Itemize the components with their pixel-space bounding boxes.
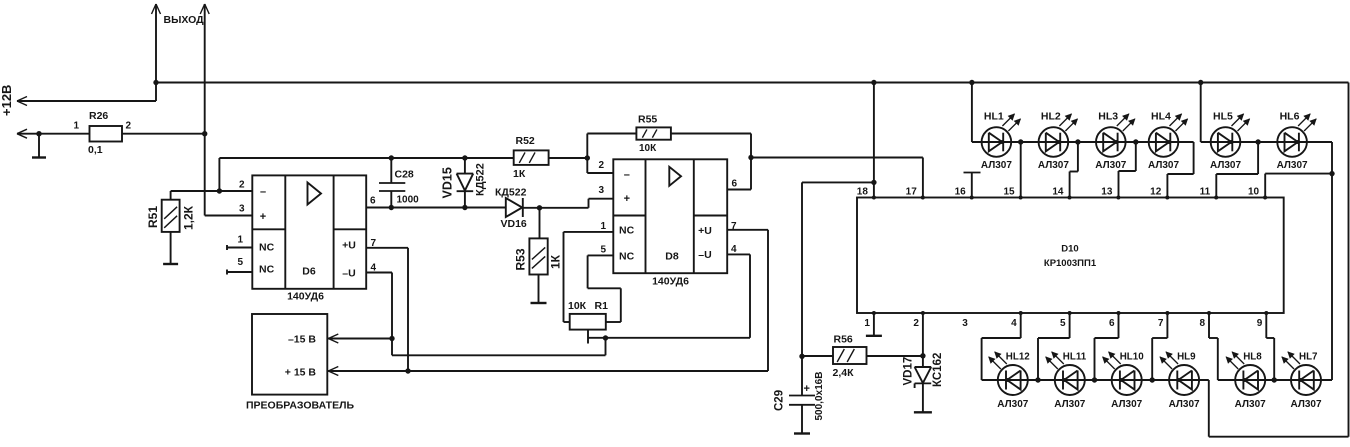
svg-text:HL5: HL5 (1213, 111, 1233, 123)
svg-text:HL11: HL11 (1063, 352, 1087, 363)
svg-text:АЛ307: АЛ307 (1111, 399, 1142, 410)
svg-text:HL10: HL10 (1120, 352, 1145, 363)
svg-text:HL4: HL4 (1151, 111, 1171, 123)
svg-text:R1: R1 (595, 300, 609, 312)
svg-text:VD15: VD15 (441, 167, 455, 198)
svg-text:КД522: КД522 (495, 187, 527, 199)
svg-text:R56: R56 (834, 334, 853, 346)
svg-text:140УД6: 140УД6 (652, 275, 689, 287)
svg-text:NC: NC (619, 251, 635, 263)
svg-text:1: 1 (237, 235, 243, 246)
svg-text:1: 1 (864, 318, 870, 329)
svg-text:6: 6 (732, 179, 738, 190)
svg-text:АЛ307: АЛ307 (981, 160, 1012, 171)
svg-text:HL7: HL7 (1299, 352, 1318, 363)
svg-text:–U: –U (342, 268, 355, 280)
svg-text:АЛ307: АЛ307 (1169, 399, 1200, 410)
svg-text:5: 5 (600, 245, 606, 256)
svg-text:11: 11 (1200, 187, 1211, 198)
svg-text:D6: D6 (302, 266, 316, 278)
svg-text:9: 9 (1257, 318, 1263, 329)
svg-text:2: 2 (598, 160, 604, 171)
svg-text:NC: NC (259, 242, 275, 254)
svg-text:10: 10 (1248, 187, 1260, 198)
svg-text:5: 5 (237, 257, 243, 268)
svg-text:HL2: HL2 (1041, 111, 1061, 123)
svg-text:D8: D8 (665, 250, 679, 262)
svg-text:16: 16 (955, 187, 967, 198)
svg-text:АЛ307: АЛ307 (1095, 160, 1126, 171)
svg-text:HL9: HL9 (1177, 352, 1196, 363)
svg-text:12: 12 (1150, 187, 1162, 198)
svg-text:R53: R53 (514, 248, 528, 270)
svg-text:VD17: VD17 (903, 357, 915, 386)
svg-text:140УД6: 140УД6 (287, 291, 324, 303)
svg-text:HL3: HL3 (1098, 111, 1118, 123)
svg-text:1К: 1К (513, 168, 526, 180)
svg-text:–U: –U (698, 249, 711, 261)
svg-text:HL1: HL1 (984, 111, 1004, 123)
svg-text:АЛ307: АЛ307 (1038, 160, 1069, 171)
svg-text:1: 1 (600, 221, 606, 232)
svg-text:4: 4 (1011, 318, 1017, 329)
svg-text:HL8: HL8 (1243, 352, 1262, 363)
svg-text:3: 3 (598, 185, 604, 196)
svg-text:1К: 1К (549, 254, 563, 269)
svg-text:1,2К: 1,2К (182, 205, 196, 230)
svg-text:2: 2 (239, 180, 245, 191)
svg-text:500,0х16В: 500,0х16В (814, 372, 825, 421)
svg-text:+U: +U (342, 240, 356, 252)
svg-text:1: 1 (73, 121, 79, 132)
svg-text:R51: R51 (146, 206, 160, 228)
svg-text:R26: R26 (89, 110, 108, 122)
svg-text:6: 6 (1109, 318, 1115, 329)
svg-text:14: 14 (1052, 187, 1064, 198)
svg-text:2,4К: 2,4К (833, 367, 855, 379)
svg-text:3: 3 (239, 204, 245, 215)
svg-text:NC: NC (259, 264, 275, 276)
svg-text:3: 3 (962, 318, 968, 329)
svg-text:VD16: VD16 (501, 218, 527, 230)
svg-text:ПРЕОБРАЗОВАТЕЛЬ: ПРЕОБРАЗОВАТЕЛЬ (246, 400, 354, 412)
svg-text:0,1: 0,1 (88, 144, 103, 156)
svg-text:HL6: HL6 (1280, 111, 1300, 123)
svg-text:АЛ307: АЛ307 (1054, 399, 1085, 410)
svg-text:+ 15 В: + 15 В (285, 367, 317, 379)
svg-text:КР1003ПП1: КР1003ПП1 (1044, 258, 1097, 269)
svg-text:+: + (804, 383, 810, 395)
svg-text:10К: 10К (639, 143, 657, 154)
svg-text:КД522: КД522 (475, 163, 487, 196)
svg-text:R52: R52 (516, 135, 535, 147)
svg-text:+12В: +12В (0, 85, 14, 116)
svg-text:7: 7 (1158, 318, 1164, 329)
svg-text:АЛ307: АЛ307 (1277, 160, 1308, 171)
svg-text:АЛ307: АЛ307 (1148, 160, 1179, 171)
svg-text:–: – (260, 186, 266, 198)
svg-text:10К: 10К (568, 300, 587, 312)
svg-text:КС162: КС162 (932, 353, 944, 387)
svg-text:6: 6 (370, 196, 376, 207)
svg-text:13: 13 (1101, 187, 1113, 198)
svg-text:R55: R55 (638, 114, 657, 126)
svg-text:–: – (624, 169, 630, 181)
svg-text:–15 В: –15 В (288, 334, 316, 346)
svg-text:HL12: HL12 (1006, 352, 1031, 363)
svg-text:17: 17 (906, 187, 918, 198)
svg-text:ВЫХОД: ВЫХОД (164, 14, 205, 26)
svg-text:АЛ307: АЛ307 (1290, 399, 1321, 410)
svg-text:NC: NC (619, 224, 635, 236)
svg-text:5: 5 (1060, 318, 1066, 329)
svg-text:C28: C28 (395, 169, 414, 181)
svg-text:C29: C29 (774, 390, 786, 411)
svg-text:+: + (260, 211, 266, 223)
svg-text:D10: D10 (1061, 244, 1078, 255)
svg-text:2: 2 (126, 121, 132, 132)
svg-text:АЛ307: АЛ307 (1210, 160, 1241, 171)
svg-text:АЛ307: АЛ307 (997, 399, 1028, 410)
svg-text:8: 8 (1199, 318, 1205, 329)
svg-text:2: 2 (913, 318, 919, 329)
svg-text:+: + (624, 193, 630, 205)
svg-text:18: 18 (857, 187, 869, 198)
svg-text:15: 15 (1003, 187, 1015, 198)
svg-text:+U: +U (698, 225, 712, 237)
svg-text:АЛ307: АЛ307 (1235, 399, 1266, 410)
svg-text:1000: 1000 (397, 195, 420, 206)
